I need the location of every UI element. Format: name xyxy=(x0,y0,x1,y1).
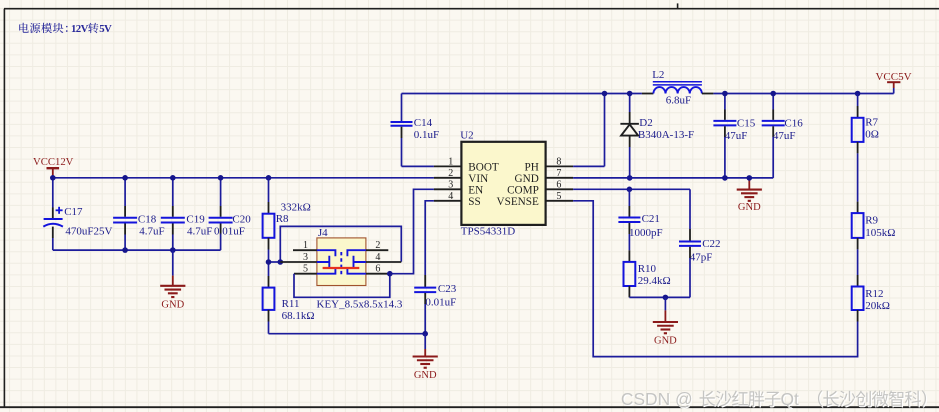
capacitor C18 xyxy=(113,178,137,250)
junction node PH rail xyxy=(602,91,608,97)
label C17 xyxy=(64,206,83,218)
label C20 xyxy=(232,213,251,225)
junction node R7 top xyxy=(855,91,861,97)
capacitor C17 xyxy=(43,178,63,250)
J4 pin 6 xyxy=(366,264,390,275)
ground GND mid xyxy=(737,178,762,213)
resistor R8 xyxy=(263,178,275,262)
label C19 xyxy=(186,213,205,225)
label C19 value xyxy=(187,226,212,238)
key switch symbol inside J4 xyxy=(317,250,366,274)
junction dots left bottom rail xyxy=(122,247,175,253)
wire R11 to GND node xyxy=(269,333,426,335)
label C16 value xyxy=(773,130,796,142)
svg-text:105kΩ: 105kΩ xyxy=(865,227,895,239)
wire VIN rail xyxy=(53,177,434,179)
svg-text:COMP: COMP xyxy=(507,184,539,196)
op-amp U2 body TPS54331D xyxy=(461,142,545,225)
svg-text:20kΩ: 20kΩ xyxy=(865,300,890,312)
svg-text:C19: C19 xyxy=(186,213,205,225)
svg-text:C17: C17 xyxy=(64,206,83,218)
wire top rail right of L2 xyxy=(713,93,893,95)
capacitor C20 xyxy=(209,178,233,250)
sheet border bottom xyxy=(0,406,939,408)
capacitor C23 xyxy=(414,288,436,334)
svg-text:6.8uF: 6.8uF xyxy=(666,94,691,106)
wire U2 COMP net xyxy=(573,188,690,190)
U2 pin 3 EN xyxy=(434,180,483,197)
label D2 xyxy=(639,117,652,129)
label C18 value xyxy=(139,226,164,238)
svg-text:SS: SS xyxy=(468,196,480,208)
svg-text:L2: L2 xyxy=(652,69,664,81)
junction node comp gnd xyxy=(663,295,669,301)
svg-text:Qt: Qt xyxy=(781,389,800,409)
label C23 value xyxy=(425,296,456,308)
junction node D2 bottom xyxy=(627,175,633,181)
label L2 value 6.8uF xyxy=(666,94,691,106)
junction node R8-R11-pin3 xyxy=(266,259,283,265)
svg-text:GND: GND xyxy=(515,173,539,185)
ground GND under R10 xyxy=(653,297,678,346)
label C20 value xyxy=(214,226,245,238)
svg-text:GND: GND xyxy=(161,300,184,311)
diode D2 xyxy=(620,94,639,178)
svg-text:D2: D2 xyxy=(639,117,652,129)
resistor R10 xyxy=(624,262,636,298)
label R7 xyxy=(865,117,878,129)
J4 pin 3 xyxy=(280,252,317,263)
connector J4 body xyxy=(317,238,366,286)
svg-text:0.1uF: 0.1uF xyxy=(414,129,439,141)
wire U2 GND pin rail xyxy=(573,177,773,179)
sheet border left xyxy=(3,9,5,408)
wire top rail left of L2 xyxy=(402,93,642,95)
svg-text:CSDN @: CSDN @ xyxy=(621,389,693,409)
svg-text:1: 1 xyxy=(303,240,308,251)
label R7 value 0 ohm xyxy=(865,129,879,141)
svg-text:332kΩ: 332kΩ xyxy=(281,202,311,214)
svg-text:8: 8 xyxy=(556,157,561,168)
capacitor C14 xyxy=(391,122,434,166)
title text 电源模块：12V转5V xyxy=(19,23,112,35)
svg-text:PH: PH xyxy=(524,161,538,173)
label R8 value 332k xyxy=(281,202,311,214)
wire J4 pins 3-4 jumper over top xyxy=(280,226,401,262)
svg-text:0.01uF: 0.01uF xyxy=(425,296,456,308)
wire comp ground rail xyxy=(629,296,690,298)
J4 pin 2 xyxy=(366,240,388,251)
J4 pin 1 xyxy=(293,240,317,251)
svg-text:4: 4 xyxy=(448,191,453,202)
svg-text:3: 3 xyxy=(303,252,308,263)
junction node D2 top xyxy=(627,91,633,97)
svg-text:B340A-13-F: B340A-13-F xyxy=(638,129,694,141)
label R12 xyxy=(865,288,883,300)
U2 pin 8 PH xyxy=(524,157,573,174)
svg-text:R7: R7 xyxy=(865,117,878,129)
svg-text:VCC12V: VCC12V xyxy=(33,156,74,168)
resistor R7 xyxy=(852,94,864,214)
svg-text:C18: C18 xyxy=(138,213,157,225)
label U2 value TPS54331D xyxy=(461,226,515,238)
wire R8/R11 to J4 pin3 xyxy=(269,261,281,263)
watermark CSDN xyxy=(621,389,927,410)
label U2 xyxy=(460,130,473,142)
svg-text:C14: C14 xyxy=(414,117,433,129)
svg-text:1: 1 xyxy=(448,157,453,168)
svg-text:GND: GND xyxy=(414,370,437,381)
label J4 value KEY_8.5x8.5x14.3 xyxy=(317,298,403,310)
J4 pin 5 xyxy=(294,264,317,275)
resistor R11 xyxy=(263,262,275,334)
svg-text:VSENSE: VSENSE xyxy=(497,196,539,208)
label C18 xyxy=(138,213,157,225)
svg-text:4.7uF: 4.7uF xyxy=(187,226,212,238)
svg-text:J4: J4 xyxy=(318,227,328,239)
label C21 value 1000pF xyxy=(629,227,663,239)
label C14 xyxy=(414,117,433,129)
junction node C23 ground xyxy=(422,331,428,337)
capacitor C16 xyxy=(762,94,785,178)
label R11 xyxy=(282,298,300,310)
power symbol VCC5V xyxy=(875,71,911,94)
label R10 value 29.4k xyxy=(638,275,671,287)
junction node C21 top xyxy=(627,187,633,193)
svg-text:47uF: 47uF xyxy=(725,130,748,142)
label C22 value 47pF xyxy=(690,252,713,264)
label R12 value 20k xyxy=(865,300,890,312)
label C22 xyxy=(702,238,720,250)
svg-text:0Ω: 0Ω xyxy=(865,129,879,141)
svg-text:C20: C20 xyxy=(232,213,251,225)
svg-text:R10: R10 xyxy=(638,263,657,275)
svg-text:7: 7 xyxy=(556,168,561,179)
svg-text:0.01uF: 0.01uF xyxy=(214,226,245,238)
svg-text:68.1kΩ: 68.1kΩ xyxy=(282,310,315,322)
svg-text:29.4kΩ: 29.4kΩ xyxy=(638,275,671,287)
capacitor C21 xyxy=(618,189,640,262)
svg-text:R11: R11 xyxy=(282,298,300,310)
junction node C15 bottom xyxy=(722,175,728,181)
label C23 xyxy=(438,283,457,295)
wire left bottom rail xyxy=(53,249,221,251)
capacitor C19 xyxy=(161,178,185,250)
U2 pin 5 VSENSE xyxy=(497,191,574,208)
label 470uF25V xyxy=(65,226,112,238)
wire VSENSE feedback xyxy=(573,201,858,357)
label D2 value B340A-13-F xyxy=(638,129,694,141)
power symbol VCC12V xyxy=(33,156,74,178)
junction node C16 top xyxy=(770,91,776,97)
junction node C15 top xyxy=(722,91,728,97)
wire J4 pin6 to U2 EN xyxy=(390,189,434,273)
junction dots VIN rail xyxy=(50,175,271,181)
capacitor C15 xyxy=(713,94,736,178)
label C14 value xyxy=(414,129,439,141)
svg-text:470uF25V: 470uF25V xyxy=(65,226,112,238)
label J4 xyxy=(318,227,328,239)
svg-text:C16: C16 xyxy=(784,117,803,129)
svg-text:TPS54331D: TPS54331D xyxy=(461,226,515,238)
svg-text:R8: R8 xyxy=(276,213,289,225)
svg-text:C21: C21 xyxy=(642,213,660,225)
svg-text:12V: 12V xyxy=(71,23,89,35)
junction node J4 pin6 xyxy=(387,271,393,277)
svg-text:4: 4 xyxy=(375,252,380,263)
svg-text:EN: EN xyxy=(468,184,483,196)
U2 pin 7 GND xyxy=(515,168,574,185)
U2 pin 4 SS xyxy=(434,191,481,208)
label R9 value 105k xyxy=(865,227,895,239)
svg-text:R12: R12 xyxy=(865,288,883,300)
svg-text:GND: GND xyxy=(738,202,761,213)
svg-text:6: 6 xyxy=(375,264,380,275)
svg-text:4.7uF: 4.7uF xyxy=(139,226,164,238)
label R11 value 68.1k xyxy=(282,310,315,322)
U2 pin 6 COMP xyxy=(507,180,573,197)
svg-text:C23: C23 xyxy=(438,283,457,295)
U2 pin 2 VIN xyxy=(434,168,488,185)
label R10 xyxy=(638,263,657,275)
svg-text:U2: U2 xyxy=(460,130,473,142)
svg-text:5V: 5V xyxy=(99,23,112,35)
svg-text:GND: GND xyxy=(654,335,677,346)
resistor R9 xyxy=(852,213,864,286)
svg-text:R9: R9 xyxy=(865,215,878,227)
label C15 value xyxy=(725,130,748,142)
label R8 xyxy=(276,213,289,225)
svg-text:47uF: 47uF xyxy=(773,130,796,142)
label C15 xyxy=(737,117,756,129)
svg-text:47pF: 47pF xyxy=(690,252,713,264)
J4 pin 4 xyxy=(366,252,401,263)
svg-text:C22: C22 xyxy=(702,238,720,250)
resistor R12 xyxy=(852,287,864,322)
label L2 xyxy=(652,69,664,81)
junction node gnd stem xyxy=(747,175,753,181)
ground GND left xyxy=(160,250,185,311)
svg-text:1000pF: 1000pF xyxy=(629,227,663,239)
wire J4 pins 5-6 loop under xyxy=(294,274,390,298)
svg-text:2: 2 xyxy=(448,168,453,179)
label R9 xyxy=(865,215,878,227)
U2 pin 1 BOOT xyxy=(434,157,499,174)
svg-text:VIN: VIN xyxy=(468,173,488,185)
svg-text:5: 5 xyxy=(556,191,561,202)
svg-text:5: 5 xyxy=(303,264,308,275)
sheet border top xyxy=(4,3,939,8)
svg-text:C15: C15 xyxy=(737,117,756,129)
svg-text:BOOT: BOOT xyxy=(468,161,499,173)
wire U2 SS to C23 xyxy=(425,201,434,287)
label C21 xyxy=(642,213,660,225)
inductor L2 xyxy=(642,82,714,94)
wire PH to top rail xyxy=(573,94,604,167)
svg-text:2: 2 xyxy=(375,240,380,251)
svg-text:3: 3 xyxy=(448,180,453,191)
svg-text:KEY_8.5x8.5x14.3: KEY_8.5x8.5x14.3 xyxy=(317,298,403,310)
capacitor C22 xyxy=(679,189,701,297)
label C16 xyxy=(784,117,803,129)
wire C14 top to rail xyxy=(401,94,403,122)
ground GND under C23 xyxy=(413,334,438,381)
svg-text:6: 6 xyxy=(556,180,561,191)
